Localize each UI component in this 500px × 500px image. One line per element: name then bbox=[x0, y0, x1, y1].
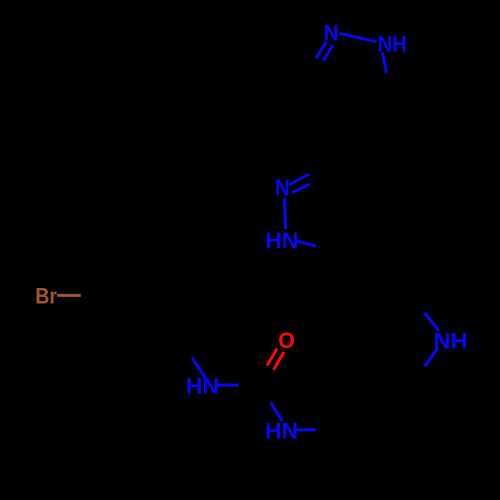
bond N2=C3 double line a (top pyrazole) bbox=[316, 42, 327, 58]
bond C-N upper (piperidine) bbox=[425, 313, 439, 331]
bond N2-N1 (middle pyrazole) bbox=[285, 198, 286, 229]
bond N2=C3 double line b (middle pyrazole) bbox=[292, 184, 310, 193]
svg-text:NH: NH bbox=[434, 328, 468, 353]
bond aryl-N (urea left) bbox=[192, 358, 208, 382]
bond N2-N1 (top pyrazole) bbox=[340, 33, 377, 42]
bond N1-C5 (top pyrazole) bbox=[383, 53, 387, 74]
bond N1-C5 (middle pyrazole) bbox=[295, 241, 316, 246]
svg-text:HN: HN bbox=[265, 418, 298, 443]
bond N2=C3 double line b (top pyrazole) bbox=[323, 45, 333, 61]
svg-text:N: N bbox=[275, 175, 290, 200]
bond N-C carbonyl (urea left) bbox=[215, 384, 239, 387]
bond N-CH2 (urea right) bbox=[294, 428, 316, 431]
bond Br-C aryl bbox=[57, 294, 81, 297]
svg-text:HN: HN bbox=[186, 374, 219, 399]
bond C=O double line a bbox=[267, 349, 277, 366]
svg-text:O: O bbox=[278, 328, 295, 353]
svg-text:Br: Br bbox=[35, 284, 57, 309]
bond carbonyl C-N (urea right) bbox=[271, 403, 283, 422]
bond N-C lower (piperidine) bbox=[425, 348, 438, 366]
svg-text:HN: HN bbox=[265, 228, 298, 253]
bond C=O double line b bbox=[274, 352, 284, 370]
bond N2=C3 double line a (middle pyrazole) bbox=[289, 174, 309, 184]
